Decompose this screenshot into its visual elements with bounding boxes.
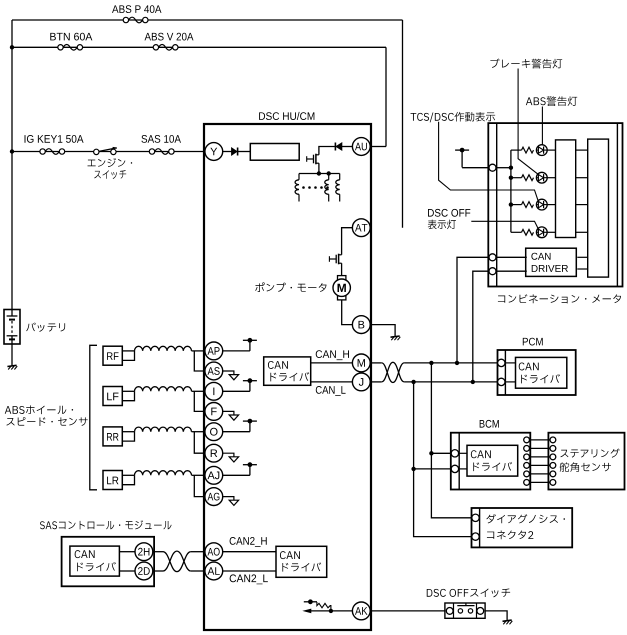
label ABS wheel line1 — [5, 405, 73, 414]
ground: DSC OFF switch — [503, 620, 513, 624]
wire: meter CAN_H to driver — [496, 256, 527, 258]
wire: LED4 to block — [547, 231, 555, 233]
CAN DRIVER box (meter) — [526, 248, 577, 276]
wire: PCM terminal to U2 (1) — [505, 362, 516, 364]
bracket: ABS wheel speed sensors — [90, 345, 97, 490]
wire: sensor supply stub — [223, 350, 250, 352]
label battery — [26, 322, 65, 331]
terminal: meter TCS/DSC input — [489, 164, 496, 171]
wire: AO to U5 — [223, 551, 276, 553]
node: T1 feed — [509, 166, 513, 170]
wire: W2 drop to AU — [385, 47, 387, 146]
label CAN2_H — [230, 537, 267, 547]
twisted pair (CAN2) — [163, 552, 191, 572]
label SAS control module — [40, 520, 172, 529]
wire: row1 — [511, 149, 522, 151]
wire: meter CAN_L to driver — [496, 270, 527, 272]
wire: BCM to steering sensor pin 6 — [530, 481, 551, 483]
wire: D2 to AU — [342, 146, 353, 148]
label pump motor — [255, 282, 326, 292]
wire: driver to block B (2) — [577, 268, 587, 270]
terminal M — [352, 354, 370, 372]
wheel speed sensor LF — [103, 387, 122, 406]
wire: BCM terminal to U3 (2) — [459, 468, 467, 470]
wire: RR pin2 (L) — [122, 432, 134, 441]
label ABS warning lamp — [526, 96, 577, 106]
wire: PCM terminal to U2 (2) — [505, 381, 516, 383]
terminal: meter CAN_L — [489, 268, 496, 275]
wheel speed sensor RR — [103, 427, 122, 446]
terminal O — [205, 423, 223, 441]
wire W3 IG KEY1 feed — [12, 151, 205, 153]
DSC OFF switch SW2 — [445, 603, 485, 618]
terminal AG — [205, 488, 223, 506]
wire: CAN_H down to BCM/diagnosis — [431, 363, 471, 518]
terminal: diag CAN_L — [472, 533, 479, 540]
wire: RF pin2 (L) — [122, 351, 134, 361]
terminal: steering sensor pin 2 — [550, 446, 556, 452]
wire: solenoid bus — [299, 173, 340, 175]
fuse IG KEY1 50A — [40, 149, 65, 155]
terminal B — [352, 316, 370, 334]
label CAN_H — [316, 350, 349, 360]
label ABS P 40A — [112, 5, 161, 13]
node: CAN_H branch to meter — [455, 361, 459, 365]
terminal 2D — [135, 562, 153, 580]
lamp LED3 (TCS/DSC indicator lamp) — [536, 199, 547, 210]
CAN driver U2 (PCM) — [516, 357, 567, 388]
fuse SAS 10A — [149, 149, 174, 155]
terminal: BCM right pin 2 — [524, 446, 530, 452]
wire: CAN_L bus — [404, 381, 497, 383]
terminal F — [205, 403, 223, 421]
terminal: steering sensor pin 4 — [550, 463, 556, 469]
node: Q1 source on bus — [317, 171, 321, 175]
node: CAN_L branch to meter — [471, 380, 475, 384]
meter inner rail left — [496, 123, 498, 286]
lamp LED1 (brake warning lamp) — [536, 145, 547, 156]
terminal: BCM right pin 6 — [524, 480, 530, 486]
SAS control module box — [62, 537, 155, 587]
wire: CAN_H bus — [404, 362, 497, 364]
arrowhead (internal logic) — [302, 609, 311, 614]
wire: D1 to relay block — [238, 151, 251, 153]
wire: row4 — [511, 231, 522, 233]
terminal: meter CAN_H — [489, 254, 496, 261]
label M (pump motor) — [338, 284, 346, 292]
resistor R2 (ABS warning lamp) — [522, 175, 534, 181]
terminal AP — [205, 342, 223, 360]
wire: sensor supply stub — [223, 474, 250, 476]
node: battery bus junction at W3 — [10, 149, 14, 153]
wire: shield drain — [223, 497, 234, 501]
shield ground — [229, 375, 238, 380]
diode D2 — [335, 143, 341, 151]
pointer: ABS warning lamp — [541, 107, 543, 145]
terminal AL — [205, 562, 223, 580]
wire: stub to T1 — [462, 167, 489, 169]
node: CAN_H branch down — [429, 361, 433, 365]
wire: shield drain — [223, 453, 234, 457]
relay/valve block (unlabeled rectangle) — [250, 144, 299, 161]
CAN driver U4 (SAS) — [70, 546, 120, 576]
wire: switch to ground — [485, 611, 507, 620]
label BCM — [480, 420, 499, 428]
transistor Q1 (FET, valve relay drive) — [307, 154, 319, 165]
wire: AK internal with arrow — [306, 610, 352, 612]
wire: BCM to steering sensor pin 3 — [530, 456, 551, 458]
steering angle sensor box — [548, 433, 624, 490]
label engine switch line2 — [94, 170, 126, 179]
pointer: brake warning lamp — [518, 69, 538, 175]
label ABS V 20A — [145, 33, 194, 41]
node: meter supply stub — [455, 148, 469, 168]
twisted wiring RF — [135, 346, 192, 351]
label CAN2_L — [230, 574, 268, 584]
wire: Q1 drain up and right to diode D2 — [319, 147, 335, 155]
CAN driver U1 (DSC) — [264, 357, 311, 385]
label diagnosis line1 — [486, 514, 565, 523]
node: solenoid L2 on bus — [327, 171, 331, 175]
wire: AL to U5 — [223, 570, 276, 572]
wire: RR return drop — [194, 432, 205, 454]
node: supply stub — [243, 338, 257, 351]
twisted wiring RR — [135, 427, 192, 432]
battery BAT — [4, 310, 20, 345]
node: CAN_L branch down — [411, 380, 415, 384]
resistor R1 (brake warning lamp) — [522, 147, 534, 153]
wire: LF return drop — [194, 391, 205, 411]
label steering line1 — [560, 449, 619, 458]
node: pull-up junction — [329, 609, 333, 613]
wire: U4 to 2H — [119, 551, 135, 553]
wheel speed sensor LR — [103, 471, 122, 490]
label engine switch line1 — [88, 158, 133, 167]
label steering line2 — [560, 462, 611, 472]
pointer: DSC OFF indicator — [471, 221, 538, 229]
terminal: BCM CAN_L — [451, 465, 458, 472]
wire: CAN_L to BCM — [414, 468, 451, 470]
wire: twist to AO — [191, 551, 205, 553]
DSC HU/CM box — [204, 124, 371, 630]
wire: block link row3 — [576, 204, 588, 206]
wire: RF signal to terminal — [192, 350, 206, 352]
CAN driver U3 (BCM) — [467, 445, 518, 476]
wire: BCM to steering sensor pin 5 — [530, 473, 551, 475]
ground: battery — [7, 365, 17, 369]
meter block A — [556, 140, 576, 238]
solenoid valve coil L3 — [339, 174, 341, 180]
pointer: TCS/DSC indicator — [439, 122, 539, 202]
wire: sensor supply stub — [223, 431, 250, 433]
label combination meter — [498, 294, 621, 303]
terminal Y — [205, 143, 223, 161]
terminal: BCM right pin 4 — [524, 463, 530, 469]
node: supply stub — [243, 378, 257, 391]
BCM box — [451, 433, 531, 490]
wire: U1 to J — [311, 381, 353, 383]
wire: LED1 to block — [547, 149, 555, 151]
fuse ABS P 40A — [123, 17, 148, 23]
terminal I — [205, 382, 223, 400]
terminal: PCM CAN_L — [498, 378, 505, 385]
wire: sensor supply stub — [223, 390, 250, 392]
node: row3 — [509, 202, 513, 206]
PCM inner rail — [504, 350, 506, 395]
ellipsis dots (more coils) — [302, 186, 329, 189]
supply stub for pull-up — [304, 599, 317, 604]
shield ground — [229, 457, 238, 462]
wire: BCM terminal to U3 (1) — [459, 452, 467, 454]
wire: AT to pump FET — [342, 228, 353, 255]
battery feed vertical wire — [11, 20, 13, 310]
diagnosis inner rail — [479, 508, 481, 547]
label brake warning lamp — [490, 58, 562, 68]
wire: T1 to ladder — [496, 167, 511, 169]
wire: motor to B — [342, 300, 353, 325]
twisted wiring LF — [135, 387, 192, 392]
wire: driver to block B (1) — [577, 256, 587, 258]
node: row2 — [509, 176, 513, 180]
wheel speed sensor RF — [103, 346, 122, 365]
wire W2 BTN/ABS V feed — [12, 46, 386, 48]
terminal: steering sensor pin 5 — [550, 471, 556, 477]
terminal: BCM CAN_H — [451, 450, 458, 457]
wire: W1 drop to AT — [402, 20, 404, 228]
wire: AK to DSC OFF switch — [370, 610, 445, 612]
wire: twist to AL — [191, 570, 205, 572]
wire: BCM to steering sensor pin 1 — [530, 439, 551, 441]
wire: 2H to twist — [153, 551, 163, 553]
label DSC OFF switch — [427, 588, 510, 597]
label ABS wheel line2 — [6, 417, 87, 426]
resistor R3 (TCS/DSC indicator lamp) — [522, 202, 534, 208]
wire: RR pin1 — [122, 431, 134, 433]
terminal AS — [205, 362, 223, 380]
wire: Q2 source to motor — [341, 263, 343, 275]
twisted pair (HS-CAN) — [382, 363, 404, 383]
wire: AU to W2 drop — [370, 146, 386, 148]
node: CAN_H at BCM — [429, 451, 433, 455]
wire: CAN_H to BCM — [431, 452, 451, 454]
terminal: BCM right pin 5 — [524, 471, 530, 477]
terminal AK — [352, 602, 370, 620]
wire: LR pin2 (L) — [122, 475, 134, 484]
combination meter box — [488, 123, 622, 286]
node: supply stub — [243, 419, 257, 432]
node: CAN_L at BCM — [411, 467, 415, 471]
meter lamp ladder vertical — [510, 150, 512, 232]
terminal AT — [352, 219, 370, 237]
wire: CAN_L down to BCM/diagnosis — [414, 382, 472, 537]
wire: RF return drop — [194, 351, 205, 371]
lamp LED4 (DSC OFF indicator lamp) — [536, 227, 547, 238]
lamp LED2 (ABS warning lamp) — [536, 172, 547, 183]
wire: block link row2 — [576, 177, 588, 179]
terminal: steering sensor pin 3 — [550, 454, 556, 460]
terminal: diag CAN_H — [472, 514, 479, 521]
label SAS 10A — [141, 135, 181, 143]
solenoid valve coil L2 — [328, 174, 330, 180]
wire: LF pin2 (L) — [122, 391, 134, 400]
wire: U4 to 2D — [119, 570, 135, 572]
wire: LF signal to terminal — [192, 390, 206, 392]
wire W1 ABS P 40A feed — [12, 19, 403, 21]
terminal: BCM right pin 3 — [524, 454, 530, 460]
terminal R — [205, 444, 223, 462]
wire: Y to diode D1 — [223, 151, 232, 153]
terminal: PCM CAN_H — [498, 359, 505, 366]
ground: pump return — [391, 336, 401, 340]
node: supply stub — [243, 462, 257, 475]
wire: M to twist — [370, 362, 382, 364]
terminal J — [352, 373, 370, 391]
node: battery bus junction at W2 — [10, 45, 14, 49]
diagnosis connector 2 box — [472, 508, 573, 547]
wire: LED3 to block — [547, 204, 555, 206]
pull-up resistor R5 — [317, 602, 331, 611]
label DSC HU/CM — [259, 112, 314, 120]
wire: block link row1 — [576, 149, 588, 151]
wire: row3 — [511, 204, 522, 206]
engine switch SW1 — [94, 148, 117, 155]
wire: shield drain — [223, 371, 234, 375]
wire: Q1 source to solenoid bus — [318, 163, 320, 173]
wire: U1 to M — [311, 362, 353, 364]
fuse ABS V 20A — [153, 45, 178, 51]
wire: RR signal to terminal — [192, 431, 206, 433]
shield ground — [229, 415, 238, 420]
wire: LR pin1 — [122, 474, 134, 476]
label PCM — [523, 338, 543, 346]
wire: CAN_H up to meter — [457, 257, 489, 363]
wire: LED2 to block — [547, 177, 555, 179]
label IG KEY1 50A — [25, 135, 84, 143]
terminal AU — [352, 138, 370, 156]
shield ground — [229, 500, 238, 505]
label CAN_L — [316, 386, 346, 396]
meter block B — [588, 139, 609, 277]
wire: shield drain — [223, 411, 234, 415]
label DSC OFF line2 — [428, 220, 456, 230]
fuse BTN 60A — [58, 45, 83, 51]
resistor R4 (DSC OFF indicator lamp) — [522, 229, 534, 235]
twisted wiring LR — [135, 471, 192, 476]
wire: battery to ground — [11, 344, 13, 366]
label TCS/DSC indicator — [411, 112, 496, 123]
PCM box — [498, 350, 576, 395]
label DSC OFF line1 — [428, 209, 470, 217]
label diagnosis line2 — [487, 530, 533, 539]
terminal AO — [205, 543, 223, 561]
wire: CAN_L up to meter — [473, 271, 489, 382]
wire: BCM to steering sensor pin 2 — [530, 447, 551, 449]
BCM inner rail — [458, 433, 460, 490]
transistor Q2 (pump motor drive) — [329, 254, 341, 265]
wire: LF pin1 — [122, 390, 134, 392]
wire: row2 — [511, 177, 522, 179]
terminal: steering sensor pin 6 — [550, 480, 556, 486]
diode D1 — [232, 148, 238, 156]
terminal: steering sensor pin 1 — [550, 437, 556, 443]
wire: block link row4 — [576, 231, 588, 233]
wire: LR signal to terminal — [192, 474, 206, 476]
wire: LR return drop — [194, 475, 205, 496]
wire: B to ground — [370, 325, 395, 337]
pump motor M1 — [333, 276, 350, 300]
terminal: BCM right pin 1 — [524, 437, 530, 443]
CAN driver U5 (DSC CAN2) — [276, 546, 327, 577]
terminal 2H — [135, 543, 153, 561]
label BTN 60A — [50, 33, 92, 41]
meter inner rail right — [616, 123, 618, 286]
wire: BCM to steering sensor pin 4 — [530, 464, 551, 466]
terminal AJ — [205, 466, 223, 484]
solenoid valve coil L1 — [298, 174, 300, 180]
wire: RF pin1 — [122, 350, 134, 352]
